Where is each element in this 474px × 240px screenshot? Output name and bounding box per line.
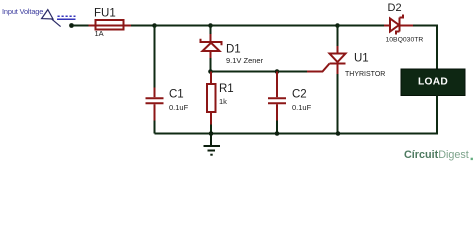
svg-text:THYRISTOR: THYRISTOR <box>345 71 385 78</box>
wire top rail fuse to C1 node <box>131 25 155 27</box>
svg-text:C2: C2 <box>292 88 307 100</box>
svg-text:9.1V Zener: 9.1V Zener <box>226 56 264 65</box>
svg-text:Input Voltage: Input Voltage <box>2 7 43 16</box>
logo dot <box>471 158 473 160</box>
capacitor C2 <box>268 72 286 121</box>
diode D2 left pin <box>384 25 390 27</box>
svg-text:10BQ030TR: 10BQ030TR <box>386 36 424 43</box>
fuse FU1 right pin <box>124 25 132 27</box>
node top-U1 junction <box>335 23 340 28</box>
wire U1 cathode to bottom rail <box>337 74 339 134</box>
wire D1 column upper <box>210 26 212 35</box>
wire VIN dot to fuse <box>73 25 89 27</box>
fuse FU1 left pin <box>89 25 96 27</box>
thyristor U1 <box>330 46 346 74</box>
input port solid line <box>57 18 76 20</box>
wire bottom rail <box>155 133 339 135</box>
wire gate rail C2 to U1 gate <box>277 71 307 73</box>
svg-text:0.1uF: 0.1uF <box>292 103 312 112</box>
wire C1 column lower <box>154 121 156 134</box>
node bottom-C2 junction <box>275 131 280 136</box>
node gate-C2 junction <box>275 69 280 74</box>
node bottom-R1 junction <box>209 131 214 136</box>
thyristor U1 gate pin <box>307 64 330 72</box>
wire R1 to bottom rail <box>210 125 212 134</box>
node bottom-U1 junction <box>336 131 341 136</box>
diode D2 right pin <box>400 25 414 27</box>
zener diode D1 <box>201 34 222 58</box>
svg-text:0.1uF: 0.1uF <box>169 103 189 112</box>
wire LOAD bottom to rail <box>338 96 437 134</box>
capacitor C1 <box>146 88 164 121</box>
node top-D1 junction <box>208 23 213 28</box>
wire U1 anode from top rail <box>337 26 339 47</box>
node VIN terminal dot <box>69 23 74 28</box>
wire gate rail D1 to C2 <box>211 71 278 73</box>
schottky diode D2 <box>390 15 403 35</box>
svg-text:LOAD: LOAD <box>418 76 448 87</box>
svg-text:D2: D2 <box>388 2 402 14</box>
input probe triangle icon <box>42 10 61 27</box>
svg-text:1k: 1k <box>219 97 227 106</box>
wire C1 column upper <box>154 26 156 88</box>
wire top rail U1 node to D2 <box>338 25 385 27</box>
wire D1 anode to gate node <box>210 58 212 72</box>
svg-text:FU1: FU1 <box>94 7 116 19</box>
ground <box>204 134 221 155</box>
wire top rail D1 node to U1 node <box>211 25 338 27</box>
input port dashed line <box>58 15 76 17</box>
svg-text:U1: U1 <box>354 53 369 65</box>
node gate-D1 junction <box>208 69 213 74</box>
resistor R1 <box>207 72 216 125</box>
load block <box>401 69 465 96</box>
wire D2 to LOAD corner <box>413 26 437 70</box>
svg-text:R1: R1 <box>219 83 234 95</box>
svg-text:C1: C1 <box>169 88 184 100</box>
svg-text:D1: D1 <box>226 43 241 55</box>
node top-C1 junction <box>152 23 157 28</box>
wire top rail C1 node to D1 node <box>155 25 211 27</box>
fuse FU1 body <box>96 20 124 30</box>
svg-text:CírcuitDigest: CírcuitDigest <box>404 149 469 161</box>
svg-text:1A: 1A <box>95 29 104 38</box>
wire C2 to bottom rail <box>276 121 278 134</box>
